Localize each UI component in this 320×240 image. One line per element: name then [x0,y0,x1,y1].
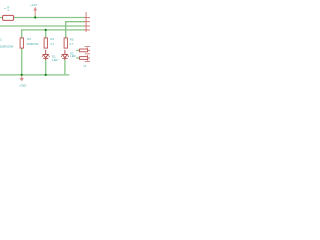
wire rail C corner down to R2 top [21,29,23,38]
node junction dot on rail A at +12V tap [34,16,36,18]
wire +12V drop to rail A [34,15,36,18]
diode D1 (LED, pointing down) [42,50,50,60]
resistor R3 (vertical) [44,38,47,48]
wire rail B (y=26.0) [0,25,85,27]
pin lead at rail B [84,25,90,27]
svg-text:4.7: 4.7 [50,42,54,46]
wire junction on rail C down to R3 top [45,30,47,38]
wire rail A (+12V net, y=17.7) [0,17,85,19]
resistor R6 (horizontal, right) [80,49,88,52]
svg-text:R3: R3 [27,37,31,41]
diode D2 (LED, pointing down) [61,50,69,60]
pin lead at rail A [84,17,90,19]
svg-text:LED: LED [70,54,76,58]
svg-text:R5: R5 [70,37,74,41]
connector edge pins (right, upper block) [84,12,90,32]
pin lead at rail C [84,29,90,31]
wire R2 bottom to ground rail [21,48,23,75]
svg-text:4.7: 4.7 [69,42,73,46]
svg-text:R4: R4 [50,37,54,41]
ground symbol GND below junction at x=21.7 [20,76,24,82]
svg-text:GND: GND [20,83,28,87]
pin lead at rail D [84,21,90,23]
small red arrow tick above ground-side pin [87,60,89,62]
svg-text:LED: LED [52,58,58,62]
wire rail C (y=29.9) [22,29,85,31]
pin lead right of R6 [88,49,90,51]
node junction dot on rail C at R3 column [45,29,47,31]
pin lead right of R7 [88,57,90,59]
wire D2 cathode down to ground rail [64,60,66,75]
resistor R4 (vertical) [64,38,67,48]
resistor R7 (horizontal, right) [80,57,88,60]
svg-text:+12V: +12V [30,3,38,7]
wire rail D (y=21.7) [66,21,85,23]
wire stub left of resistor R6 [76,49,80,51]
node junction dot on ground rail at R2 column [21,74,23,76]
wire D1 cathode down to ground rail [45,60,47,75]
labels (cyan) [0,3,87,88]
svg-text:300R/20W: 300R/20W [0,44,14,48]
power flag +12V (red up arrow) [34,7,37,15]
resistor R1 (horizontal, top left) [3,15,14,20]
resistor R2 (vertical) [20,38,23,48]
background [0,0,90,90]
node junction dot on ground rail at D1 column [45,74,47,76]
connector edge pins (right, lower block) [85,46,90,61]
svg-text:200R/5W: 200R/5W [27,42,39,46]
wire ground rail (y=74.9) [0,74,69,76]
wire rail D corner down to R4 top (crosses B and C) [65,21,67,38]
wire stub left of resistor R7 [76,57,80,59]
